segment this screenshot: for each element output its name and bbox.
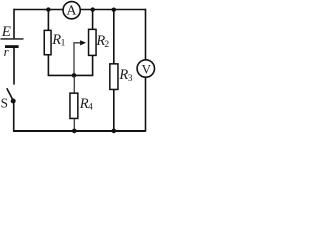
switch S contact dot	[11, 99, 16, 104]
wire right vertical lower	[145, 78, 147, 132]
resistor R1 body	[44, 30, 51, 54]
wire top right segment	[81, 9, 146, 11]
svg-text:A: A	[66, 3, 77, 18]
resistor R3 top lead	[113, 10, 115, 64]
svg-text:4: 4	[88, 103, 93, 113]
node dot R3 branch top	[112, 8, 116, 12]
svg-text:E: E	[1, 24, 11, 40]
svg-text:2: 2	[104, 40, 109, 50]
node dot R4 bottom	[72, 129, 77, 134]
svg-text:3: 3	[128, 74, 133, 84]
resistor R3 body	[110, 64, 118, 90]
battery E r	[1, 39, 24, 47]
resistor R4 top lead	[73, 76, 75, 93]
wire right vertical upper	[145, 9, 147, 60]
resistor R4 body	[70, 93, 78, 118]
voltmeter circle V	[137, 60, 154, 77]
resistor R2 body	[89, 29, 97, 55]
rheostat wiper arrow of R2	[74, 43, 81, 76]
resistor R1 top lead	[47, 10, 49, 31]
node dot R3 bottom	[112, 129, 117, 134]
wire bottom	[13, 130, 146, 132]
svg-text:1: 1	[61, 39, 66, 49]
ammeter A circle	[63, 2, 80, 19]
wire middle connecting R1 bottom to R2 bottom	[48, 55, 92, 76]
rheostat wiper arrowhead	[80, 40, 86, 45]
svg-text:S: S	[1, 95, 8, 110]
svg-text:V: V	[142, 61, 152, 76]
wire top left segment	[14, 9, 62, 11]
resistor R3 bottom lead	[113, 90, 115, 131]
node dot middle junction	[72, 73, 77, 78]
resistor R2 top lead	[92, 10, 94, 30]
resistor R4 bottom lead	[73, 119, 75, 131]
wire left vertical middle	[13, 48, 15, 85]
switch S blade	[7, 88, 13, 100]
node dot right of ammeter	[91, 7, 95, 11]
node dot left of ammeter	[46, 7, 50, 11]
wire left vertical upper	[13, 9, 15, 39]
wire left vertical lower	[13, 101, 15, 131]
